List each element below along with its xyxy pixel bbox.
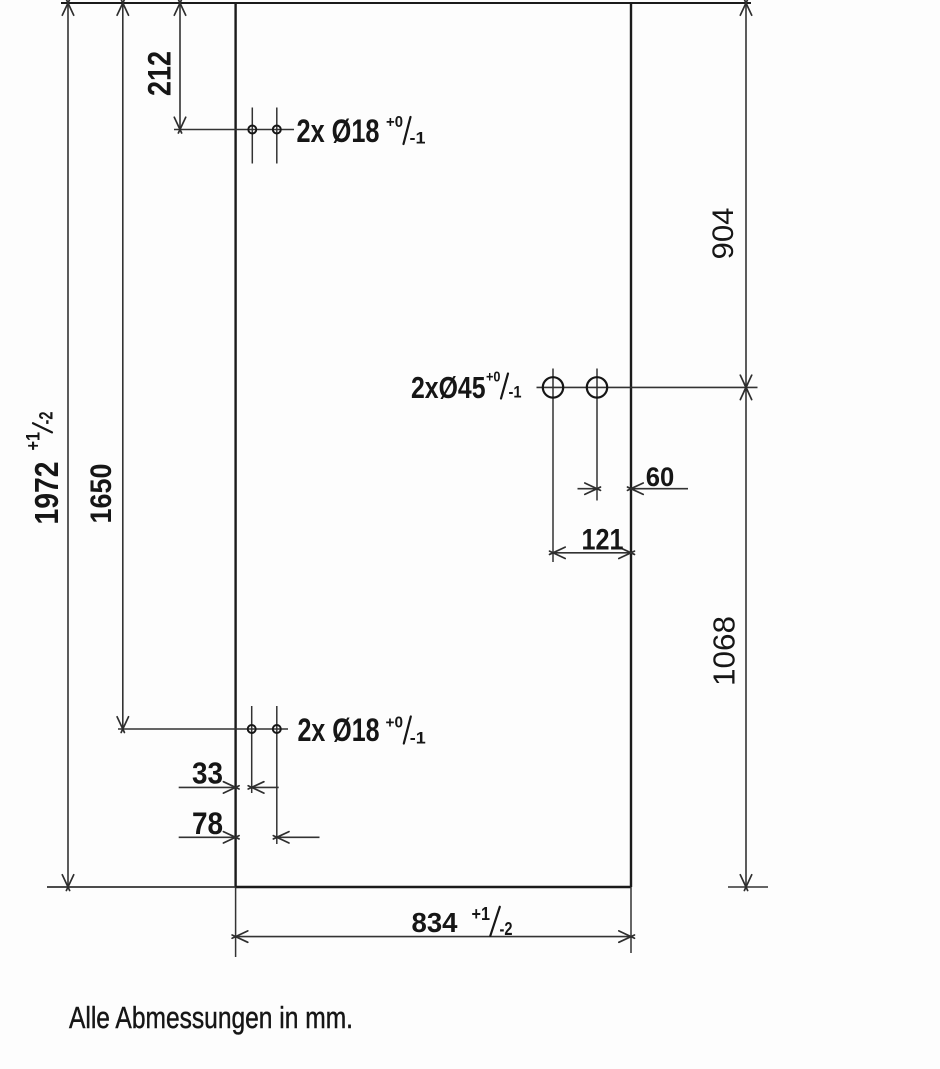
svg-text:1972: 1972	[28, 462, 65, 525]
svg-text:-2: -2	[37, 412, 58, 425]
svg-text:-1: -1	[410, 729, 426, 748]
svg-text:2x Ø18: 2x Ø18	[298, 712, 380, 748]
svg-text:1650: 1650	[85, 464, 118, 524]
svg-text:-1: -1	[509, 383, 522, 402]
svg-text:+0: +0	[386, 114, 403, 131]
svg-text:904: 904	[707, 208, 740, 260]
svg-text:+1: +1	[24, 432, 45, 451]
svg-text:60: 60	[646, 462, 675, 492]
svg-text:+1: +1	[472, 903, 491, 924]
svg-text:78: 78	[192, 805, 223, 841]
svg-text:212: 212	[142, 51, 178, 96]
svg-text:-2: -2	[500, 919, 513, 939]
svg-text:-1: -1	[410, 129, 426, 148]
svg-text:Alle Abmessungen in mm.: Alle Abmessungen in mm.	[69, 1001, 353, 1035]
svg-text:33: 33	[192, 756, 223, 791]
svg-text:2x Ø18: 2x Ø18	[297, 113, 380, 149]
svg-text:2xØ45: 2xØ45	[411, 371, 486, 405]
svg-text:121: 121	[582, 524, 624, 557]
svg-text:+0: +0	[386, 715, 404, 732]
svg-text:1068: 1068	[707, 616, 742, 686]
svg-text:834: 834	[412, 907, 458, 938]
svg-text:+0: +0	[486, 369, 501, 386]
